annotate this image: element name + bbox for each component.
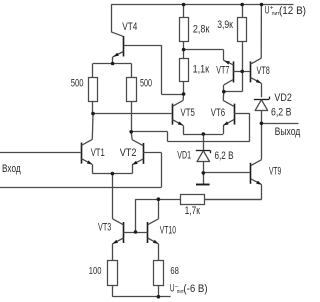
svg-text:6,2 В: 6,2 В (271, 106, 291, 118)
svg-text:500: 500 (140, 77, 152, 89)
svg-text:VT10: VT10 (160, 225, 176, 237)
svg-text:Вход: Вход (2, 163, 21, 175)
svg-text:VT9: VT9 (269, 165, 281, 177)
svg-text:3,9к: 3,9к (217, 19, 233, 31)
svg-text:VT6: VT6 (211, 107, 225, 119)
svg-text:VT7: VT7 (216, 65, 229, 77)
svg-text:VT5: VT5 (181, 107, 195, 119)
svg-text:100: 100 (89, 266, 102, 277)
svg-text:Выход: Выход (275, 126, 301, 138)
svg-text:VT4: VT4 (122, 21, 137, 33)
svg-text:2,8к: 2,8к (193, 23, 210, 35)
svg-text:(-6 В): (-6 В) (183, 283, 207, 295)
svg-text:68: 68 (170, 266, 179, 277)
svg-text:VD2: VD2 (274, 92, 291, 104)
svg-text:VD1: VD1 (177, 149, 191, 161)
svg-text:VT3: VT3 (98, 221, 111, 233)
svg-text:VT2: VT2 (120, 147, 137, 159)
svg-text:1,7к: 1,7к (185, 205, 200, 217)
svg-text:500: 500 (71, 77, 84, 89)
svg-text:VT8: VT8 (257, 65, 270, 77)
svg-text:1,1к: 1,1к (193, 64, 210, 76)
svg-text:6,2 В: 6,2 В (215, 150, 234, 162)
svg-text:(12 В): (12 В) (279, 5, 306, 17)
svg-text:VT1: VT1 (91, 147, 105, 159)
